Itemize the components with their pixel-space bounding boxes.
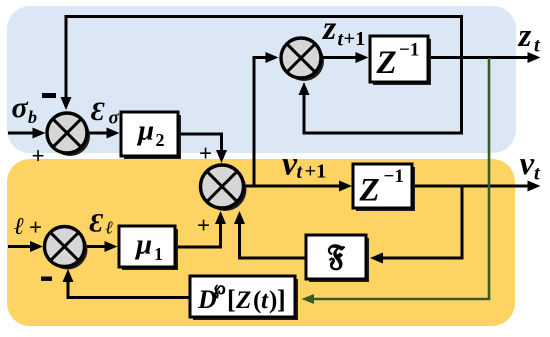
svg-text:+: +	[197, 213, 210, 238]
svg-text:μ: μ	[134, 229, 152, 261]
wire: mu2 output down into v junction (top)	[178, 134, 222, 150]
summing junction S2 (ell error)	[48, 230, 88, 270]
svg-text:z: z	[518, 18, 532, 54]
svg-text:+: +	[32, 144, 45, 169]
svg-text:σ: σ	[109, 108, 120, 129]
svg-text:1: 1	[154, 244, 163, 264]
svg-text:μ: μ	[136, 115, 154, 147]
svg-text:t: t	[534, 163, 541, 185]
sign minus at ell junction	[41, 277, 52, 281]
sign minus at sigma junction	[42, 93, 56, 98]
svg-text:v: v	[520, 146, 535, 182]
block F (fraktur)	[309, 238, 369, 282]
wire: top feedback z_t to sigma junction	[66, 17, 462, 98]
block mu2	[124, 115, 181, 159]
svg-text:t: t	[534, 35, 541, 57]
wire: green z_t tap down to D block	[314, 58, 489, 299]
wire: v junction to Z^-1 (bottom)	[243, 185, 340, 188]
svg-text:Z: Z	[359, 173, 380, 209]
wire: sigma junction to mu2 block	[88, 132, 107, 135]
summing junction S4 (v update)	[204, 168, 247, 211]
label fraktur F in block	[329, 245, 344, 270]
svg-text:b: b	[28, 107, 37, 127]
wire: v_t branch down into F block	[382, 186, 462, 258]
wire: z junction to Z^-1 (top)	[321, 56, 356, 59]
svg-text:z: z	[322, 10, 337, 47]
wire: D block feedback into ell junction	[68, 282, 190, 298]
wire: v_t+1 branch up into z junction	[254, 58, 266, 187]
wire: ell junction to mu1 block	[85, 245, 105, 248]
svg-text:−1: −1	[399, 40, 419, 61]
wire: z feedback bottom loop into z junction	[304, 58, 462, 133]
svg-text:ℓ: ℓ	[106, 218, 114, 238]
svg-text:Ɛ: Ɛ	[91, 97, 105, 126]
svg-text:−1: −1	[384, 166, 404, 187]
svg-text:+: +	[199, 141, 212, 166]
svg-text:t: t	[261, 287, 269, 314]
svg-text:+: +	[29, 215, 42, 240]
svg-text:+1: +1	[305, 161, 327, 183]
svg-text:D: D	[197, 285, 217, 314]
summing junction S3 (z update)	[284, 41, 324, 81]
wire: ell input into ell junction	[8, 245, 30, 248]
wire: Z^-1 (top) to z_t output	[428, 56, 528, 59]
svg-text:]: ]	[277, 285, 286, 314]
svg-text:ℓ: ℓ	[14, 214, 24, 240]
svg-text:2: 2	[156, 130, 165, 150]
wire: F block output up into v junction (bottom right)	[240, 224, 307, 258]
block D[Z(t)]	[193, 279, 298, 320]
svg-text:Z: Z	[235, 287, 251, 314]
blue region (z-update subsystem background)	[7, 6, 516, 153]
summing junction S1 (sigma error)	[50, 116, 90, 156]
svg-text:Ɛ: Ɛ	[90, 209, 104, 238]
wire: sigma_b input into sigma junction	[8, 132, 33, 135]
block Z^-1 top	[373, 39, 431, 85]
block Z^-1 bottom	[356, 167, 415, 211]
svg-text:+1: +1	[344, 28, 366, 50]
svg-text:[: [	[227, 285, 236, 314]
svg-text:Z: Z	[376, 45, 397, 81]
orange region (v-update subsystem background)	[7, 159, 515, 326]
svg-text:σ: σ	[12, 91, 29, 124]
wire: mu1 output up into v junction (bottom left)	[175, 224, 221, 247]
wire: Z^-1 (bottom) to v_t output	[412, 185, 528, 188]
block mu1	[122, 229, 178, 270]
